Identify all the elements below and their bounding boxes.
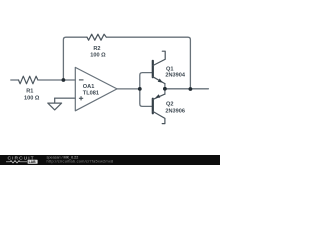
CircuitLab logo: LAB chip: [28, 160, 38, 164]
transistor Q2 base bar: [152, 99, 154, 114]
Q1 emitter: [153, 77, 165, 84]
wire R2 to feedback corner: [106, 37, 190, 89]
CircuitLab logo: resistor zigzag: [6, 161, 27, 163]
svg-text:R2: R2: [93, 46, 100, 52]
base wire to Q1 and Q2: [140, 73, 153, 107]
emitter rail: [164, 84, 166, 95]
svg-text:R1: R1: [26, 88, 33, 94]
op-amp U1 triangle: [75, 67, 117, 110]
Q1 collector: [153, 51, 165, 65]
plus sign op-amp: [79, 96, 83, 100]
Q1 base bar: [152, 61, 154, 77]
footer bar: [0, 155, 220, 165]
minus sign op-amp: [79, 79, 84, 81]
output wire: [165, 88, 209, 90]
resistor R2: [87, 34, 106, 40]
wire ground stub to non-inverting input: [55, 97, 76, 99]
wire input to R1: [11, 79, 19, 81]
svg-text:http://circuitlab.com/c/7fa5xw: http://circuitlab.com/c/7fa5xw2mx8: [47, 159, 114, 164]
Q2 emitter: [153, 94, 165, 99]
svg-text:Q2: Q2: [166, 101, 173, 107]
labels: [24, 46, 186, 115]
junction node at feedback / output: [189, 87, 193, 91]
svg-text:LAB: LAB: [29, 160, 37, 164]
svg-text:100 Ω: 100 Ω: [24, 95, 40, 101]
svg-text:OA1: OA1: [83, 84, 95, 90]
svg-text:Q1: Q1: [166, 66, 173, 72]
op-amp output wire: [117, 88, 140, 90]
junction node at emitters / output: [163, 87, 167, 91]
svg-text:TL081: TL081: [83, 90, 99, 96]
Q1 emitter arrow: [158, 79, 163, 83]
junction node at inverting input: [62, 78, 66, 82]
resistor R1: [19, 76, 38, 84]
ground: [48, 98, 62, 110]
transistor Q1 body: [153, 51, 165, 123]
Q2 collector: [153, 112, 165, 124]
Q2 emitter arrow: [155, 94, 160, 98]
svg-text:2N3906: 2N3906: [165, 109, 185, 115]
svg-text:100 Ω: 100 Ω: [90, 52, 106, 58]
svg-text:2N3904: 2N3904: [165, 72, 185, 78]
wire inverting node up to R2: [63, 37, 87, 80]
wire R1 to op-amp inverting input: [38, 79, 75, 81]
junction node at op-amp output / bases: [138, 87, 142, 91]
